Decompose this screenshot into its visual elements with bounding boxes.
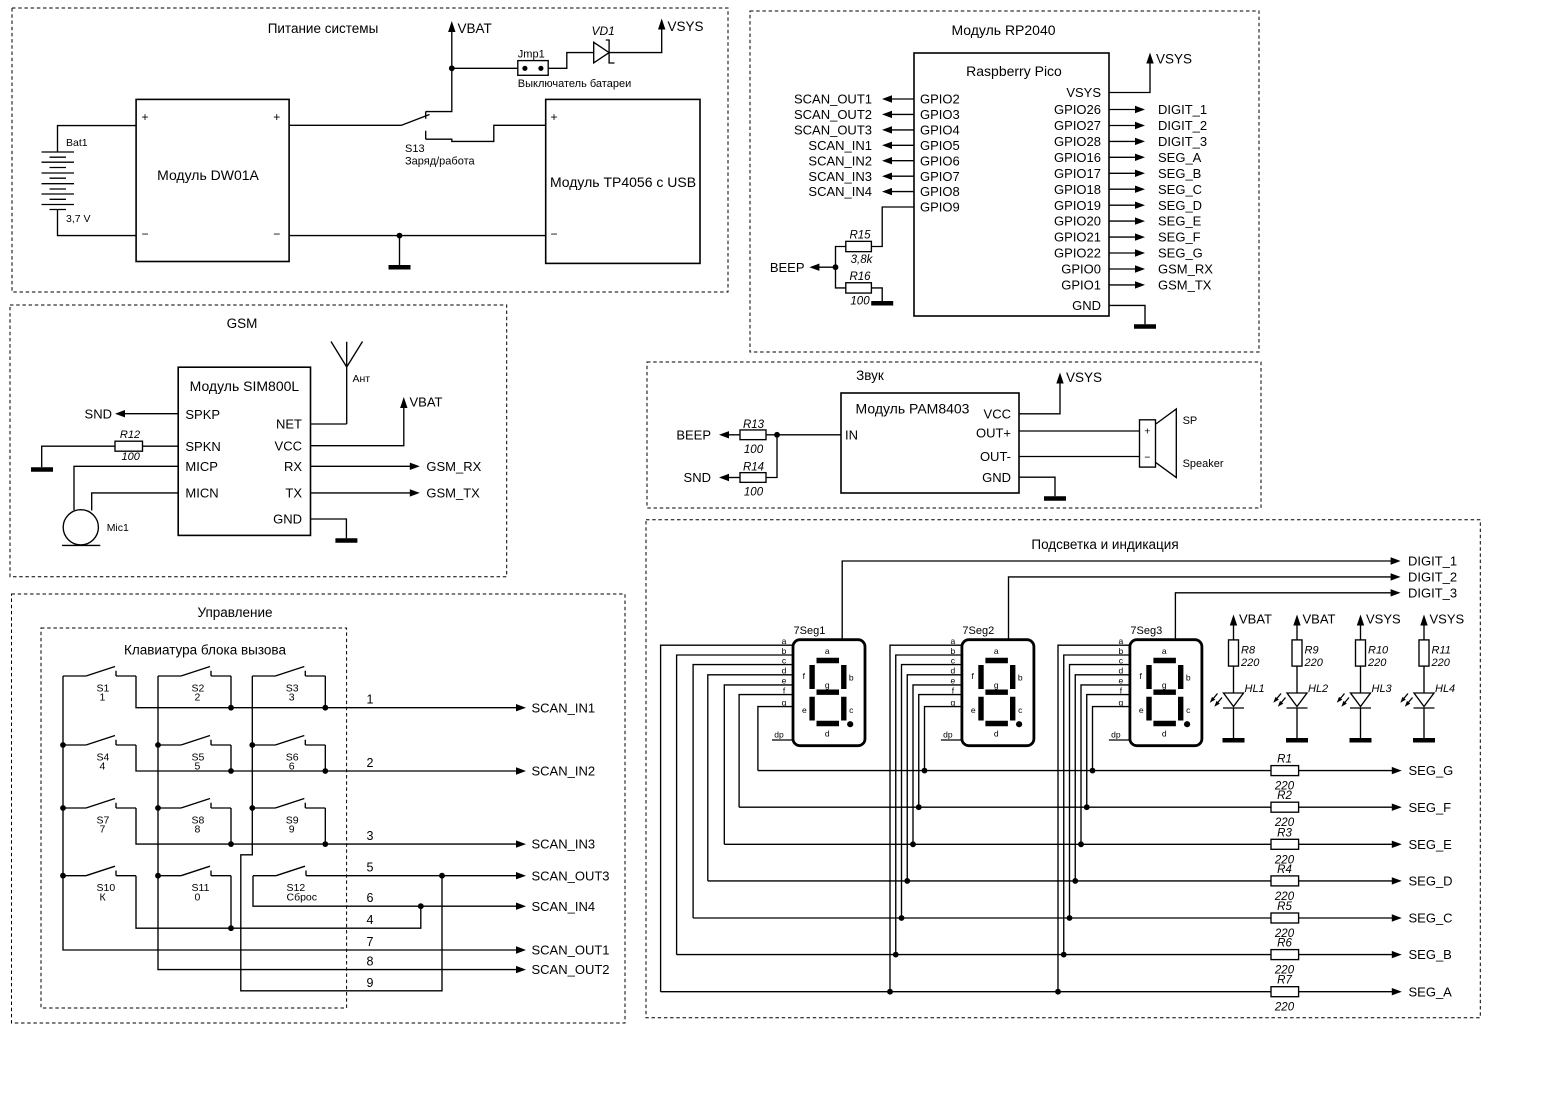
svg-text:SCAN_IN2: SCAN_IN2 xyxy=(808,153,872,168)
svg-text:220: 220 xyxy=(1367,657,1387,669)
net flag BEEP xyxy=(809,264,819,271)
svg-text:c: c xyxy=(1119,655,1124,665)
node bus junction xyxy=(60,742,66,748)
wire OUT+ to speaker xyxy=(1019,430,1140,432)
wire VCC to VBAT flag xyxy=(311,407,404,446)
module TP4056 xyxy=(546,99,700,263)
wire GPIO18 to SEG_C xyxy=(1109,188,1136,190)
svg-text:HL1: HL1 xyxy=(1245,683,1265,695)
svg-text:4: 4 xyxy=(367,913,374,927)
net flag SEG_D xyxy=(1135,202,1145,209)
svg-text:b: b xyxy=(782,646,787,656)
resistor R3 xyxy=(1271,839,1299,849)
svg-text:R14: R14 xyxy=(743,462,764,474)
svg-text:R5: R5 xyxy=(1277,901,1292,913)
control section frame xyxy=(12,594,626,1023)
svg-text:100: 100 xyxy=(744,444,764,456)
wire R16 to ground xyxy=(871,288,882,301)
wire GPIO9 to R15 xyxy=(872,207,914,247)
wire GND pico to ground xyxy=(1109,305,1145,324)
switch S1 key 1 xyxy=(63,667,136,677)
svg-text:a: a xyxy=(825,646,830,656)
wire SEG_G xyxy=(758,770,1393,772)
wire OUT- to speaker xyxy=(1019,456,1140,458)
net flag SCAN_OUT3 xyxy=(882,126,892,133)
net flag VSYS pico xyxy=(1146,53,1153,64)
svg-text:g: g xyxy=(994,680,999,690)
net flag SEG_A display xyxy=(1392,988,1402,995)
switch S13 xyxy=(402,112,430,140)
net flag GSM_TX xyxy=(1135,281,1145,288)
wire to ground xyxy=(399,236,401,266)
wire S5 drop row2 xyxy=(230,745,232,771)
7Seg3 segments xyxy=(1149,661,1181,724)
svg-text:SEG_F: SEG_F xyxy=(1409,800,1452,815)
node 7Seg2 g xyxy=(922,768,928,774)
7Seg2 segments xyxy=(981,661,1013,724)
svg-text:GPIO4: GPIO4 xyxy=(920,123,960,138)
wire S9 drop row3 xyxy=(324,808,326,844)
wire MICP to mic xyxy=(74,466,178,510)
resistor R15 xyxy=(846,241,872,251)
svg-text:Управление: Управление xyxy=(197,605,272,620)
net flag SEG_G display xyxy=(1392,767,1402,774)
wire bottom rail xyxy=(289,235,546,237)
svg-text:GPIO7: GPIO7 xyxy=(920,169,960,184)
wire VBAT to R9 xyxy=(1296,624,1298,640)
node row1 S2 xyxy=(228,705,234,711)
wire S8 drop row3 xyxy=(230,808,232,844)
wire column2 bus xyxy=(158,676,517,970)
net flag SCAN_IN1 xyxy=(882,142,892,149)
svg-text:GPIO17: GPIO17 xyxy=(1054,166,1101,181)
wire VSYS to R10 xyxy=(1360,624,1362,640)
wire 7Seg1 pin g xyxy=(758,707,793,771)
resistor R13 xyxy=(740,430,766,440)
net flag SND xyxy=(115,410,125,417)
node 7Seg3 a xyxy=(1055,989,1061,995)
svg-text:S13: S13 xyxy=(405,143,425,155)
svg-text:3,8k: 3,8k xyxy=(851,254,874,266)
ground HL4 xyxy=(1413,738,1435,743)
wire VSYS to R11 xyxy=(1423,624,1425,640)
svg-text:SEG_B: SEG_B xyxy=(1158,166,1201,181)
svg-text:VBAT: VBAT xyxy=(1239,612,1272,627)
wire S13 bottom to TP4056+ xyxy=(426,125,546,141)
svg-text:GPIO19: GPIO19 xyxy=(1054,198,1101,213)
svg-text:Ант: Ант xyxy=(353,373,371,385)
sound section frame xyxy=(647,362,1261,508)
svg-text:GND: GND xyxy=(1072,298,1101,313)
svg-text:220: 220 xyxy=(1240,657,1260,669)
microphone Mic1 xyxy=(63,510,98,545)
battery Bat1 xyxy=(42,152,75,210)
wire SEG_B xyxy=(677,954,1393,956)
ground power xyxy=(389,265,411,270)
ground HL3 xyxy=(1350,738,1372,743)
wire IN to node xyxy=(777,434,841,436)
svg-text:R4: R4 xyxy=(1277,864,1292,876)
switch S10 key К xyxy=(63,866,136,876)
svg-text:7Seg2: 7Seg2 xyxy=(962,625,994,637)
net flag SCAN_IN1 keypad xyxy=(516,704,526,711)
resistor R4 xyxy=(1271,876,1299,886)
ground pico xyxy=(1134,324,1156,329)
svg-text:a: a xyxy=(782,636,787,646)
ground R12 xyxy=(31,467,53,472)
wire 7Seg3 pin e xyxy=(1081,685,1130,844)
node row1 S3 xyxy=(322,705,328,711)
ground HL1 xyxy=(1223,738,1245,743)
svg-text:3: 3 xyxy=(367,829,374,843)
wire 7Seg1 pin f xyxy=(739,695,793,808)
wire GPIO1 to GSM_TX xyxy=(1109,284,1136,286)
resistor R14 xyxy=(740,473,766,483)
svg-text:GPIO28: GPIO28 xyxy=(1054,134,1101,149)
wire GPIO4 to SCAN_OUT3 xyxy=(891,129,914,131)
svg-text:SCAN_OUT3: SCAN_OUT3 xyxy=(794,123,872,138)
svg-text:GPIO21: GPIO21 xyxy=(1054,230,1101,245)
svg-text:GPIO26: GPIO26 xyxy=(1054,102,1101,117)
svg-text:DIGIT_3: DIGIT_3 xyxy=(1408,585,1457,600)
wire 7Seg2 pin d xyxy=(907,675,962,881)
svg-text:GPIO2: GPIO2 xyxy=(920,92,960,107)
display section frame xyxy=(646,520,1480,1018)
svg-text:Speaker: Speaker xyxy=(1183,458,1224,470)
net flag SEG_G xyxy=(1135,249,1145,256)
svg-text:4: 4 xyxy=(100,761,106,773)
svg-text:R13: R13 xyxy=(743,419,765,431)
svg-text:g: g xyxy=(951,697,956,707)
wire R8 to HL1 xyxy=(1233,666,1235,693)
wire GPIO28 to DIGIT_3 xyxy=(1109,140,1136,142)
node 7Seg3 d xyxy=(1072,878,1078,884)
svg-text:Сброс: Сброс xyxy=(287,891,318,903)
svg-text:d: d xyxy=(994,728,999,738)
net flag DIGIT_3 xyxy=(1391,589,1401,596)
svg-text:e: e xyxy=(1139,705,1144,715)
svg-text:dp: dp xyxy=(943,730,953,740)
svg-text:VBAT: VBAT xyxy=(1303,612,1336,627)
svg-text:9: 9 xyxy=(289,824,295,836)
wire row1 SCAN_IN1 xyxy=(136,676,517,708)
wire GND PAM to ground xyxy=(1019,477,1055,496)
svg-text:g: g xyxy=(825,680,830,690)
LED HL2 xyxy=(1287,693,1308,708)
net flag VSYS power xyxy=(658,19,665,30)
svg-text:IN: IN xyxy=(845,427,858,442)
net flag SCAN_OUT2 keypad xyxy=(516,966,526,973)
node 7Seg2 a xyxy=(887,989,893,995)
node SCAN_OUT3 col3 xyxy=(439,873,445,879)
wire GPIO17 to SEG_B xyxy=(1109,172,1136,174)
net flag SEG_F xyxy=(1135,233,1145,240)
node 7Seg3 e xyxy=(1078,841,1084,847)
svg-text:e: e xyxy=(971,705,976,715)
net flag GSM_TX xyxy=(410,489,420,496)
wire S3 drop row1 xyxy=(324,676,326,708)
svg-text:GPIO9: GPIO9 xyxy=(920,200,960,215)
wire HL4 to ground xyxy=(1423,708,1425,738)
svg-text:−: − xyxy=(141,227,148,241)
node bus junction xyxy=(155,805,161,811)
svg-text:GPIO16: GPIO16 xyxy=(1054,150,1101,165)
node bus junction xyxy=(249,805,255,811)
ground HL2 xyxy=(1286,738,1308,743)
wire GPIO8 to SCAN_IN4 xyxy=(891,191,914,193)
node row3 S8 xyxy=(228,841,234,847)
svg-text:−: − xyxy=(1144,452,1150,464)
svg-text:GPIO22: GPIO22 xyxy=(1054,246,1101,261)
svg-text:GSM_RX: GSM_RX xyxy=(1158,262,1213,277)
net flag SCAN_OUT2 xyxy=(882,111,892,118)
svg-text:c: c xyxy=(951,655,956,665)
resistor R10 xyxy=(1356,640,1366,666)
net flag SEG_E xyxy=(1135,217,1145,224)
svg-text:SP: SP xyxy=(1183,415,1198,427)
wire battery- to DW01A xyxy=(58,210,137,236)
wire GPIO20 to SEG_E xyxy=(1109,220,1136,222)
net flag DIGIT_1 xyxy=(1135,106,1145,113)
node 7Seg2 b xyxy=(893,952,899,958)
svg-text:−: − xyxy=(550,227,557,241)
svg-text:RX: RX xyxy=(284,459,302,474)
svg-text:SCAN_IN2: SCAN_IN2 xyxy=(532,764,596,779)
node GND junction xyxy=(397,233,403,239)
svg-text:Выключатель батареи: Выключатель батареи xyxy=(518,78,631,90)
svg-text:SEG_G: SEG_G xyxy=(1158,246,1203,261)
node bus junction xyxy=(249,742,255,748)
svg-text:9: 9 xyxy=(367,976,374,990)
net flag GSM_RX xyxy=(410,463,420,470)
svg-text:DIGIT_2: DIGIT_2 xyxy=(1158,118,1207,133)
svg-text:+: + xyxy=(273,110,280,124)
wire 7Seg1 pin e xyxy=(724,685,793,844)
svg-text:Заряд/работа: Заряд/работа xyxy=(405,156,476,168)
wire BEEP node to arrow xyxy=(818,266,836,268)
net flag VSYS HL3 xyxy=(1357,615,1364,626)
svg-text:b: b xyxy=(1119,646,1124,656)
svg-text:SCAN_IN1: SCAN_IN1 xyxy=(532,700,596,715)
node row2 S6 xyxy=(322,768,328,774)
wire S6 drop row2 xyxy=(324,745,326,771)
net flag VBAT GSM xyxy=(400,397,407,408)
node 7Seg3 c xyxy=(1067,915,1073,921)
svg-text:a: a xyxy=(994,646,999,656)
wire GPIO0 to GSM_RX xyxy=(1109,268,1136,270)
svg-text:3,7 V: 3,7 V xyxy=(66,213,91,225)
wire 7Seg2 pin a xyxy=(890,645,962,992)
svg-text:OUT+: OUT+ xyxy=(976,425,1011,440)
wire R14 to SND xyxy=(728,477,741,479)
wire GPIO27 to DIGIT_2 xyxy=(1109,125,1136,127)
wire column1 bus xyxy=(63,676,517,950)
wire GND to ground GSM xyxy=(311,519,347,538)
net flag SEG_C xyxy=(1135,186,1145,193)
wire S10 to row4 xyxy=(136,876,421,929)
svg-text:Клавиатура блока вызова: Клавиатура блока вызова xyxy=(124,643,286,658)
svg-text:Звук: Звук xyxy=(856,368,884,383)
7Seg1 segments xyxy=(812,661,844,724)
wire Jmp1 to VD1 xyxy=(548,53,594,69)
svg-text:SCAN_IN4: SCAN_IN4 xyxy=(532,899,596,914)
svg-text:Модуль DW01A: Модуль DW01A xyxy=(157,167,259,183)
svg-text:Mic1: Mic1 xyxy=(107,522,129,534)
LED HL2 light arrows xyxy=(1276,694,1286,704)
svg-text:Bat1: Bat1 xyxy=(66,137,88,149)
svg-text:7: 7 xyxy=(100,824,106,836)
node 7Seg2 c xyxy=(899,915,905,921)
wire 7Seg2 pin b xyxy=(896,655,962,955)
svg-text:SCAN_OUT2: SCAN_OUT2 xyxy=(532,962,610,977)
svg-text:HL3: HL3 xyxy=(1372,683,1393,695)
svg-text:BEEP: BEEP xyxy=(676,427,711,442)
svg-text:VCC: VCC xyxy=(984,406,1011,421)
net flag DIGIT_2 xyxy=(1135,122,1145,129)
node row2 S5 xyxy=(228,768,234,774)
wire VBAT to R8 xyxy=(1233,624,1235,640)
wire TX to GSM_TX xyxy=(311,492,411,494)
svg-text:HL2: HL2 xyxy=(1308,683,1328,695)
resistor R12 xyxy=(115,441,143,451)
svg-text:7Seg1: 7Seg1 xyxy=(794,625,826,637)
svg-text:100: 100 xyxy=(850,295,870,307)
svg-text:SCAN_IN3: SCAN_IN3 xyxy=(808,169,872,184)
net flag SEG_A xyxy=(1135,154,1145,161)
node row3 S9 xyxy=(322,841,328,847)
svg-text:R12: R12 xyxy=(120,429,140,441)
svg-text:b: b xyxy=(951,646,956,656)
svg-text:NET: NET xyxy=(276,417,302,432)
wire 7Seg1 pin b xyxy=(677,655,793,955)
net flag SEG_F display xyxy=(1392,804,1402,811)
svg-text:R9: R9 xyxy=(1305,645,1319,657)
svg-text:+: + xyxy=(141,110,148,124)
svg-text:VSYS: VSYS xyxy=(1066,85,1101,100)
node SCAN_IN4 row4 xyxy=(418,903,424,909)
resistor R7 xyxy=(1271,987,1299,997)
svg-text:e: e xyxy=(802,705,807,715)
net flag VBAT HL2 xyxy=(1293,615,1300,626)
svg-text:TX: TX xyxy=(285,486,302,501)
wire VBAT node to S13 top xyxy=(426,68,452,111)
svg-text:Подсветка и индикация: Подсветка и индикация xyxy=(1031,537,1178,552)
wire BEEP node to R16 xyxy=(836,267,846,288)
svg-text:VSYS: VSYS xyxy=(668,19,704,34)
svg-text:VBAT: VBAT xyxy=(410,395,443,410)
wire GPIO5 to SCAN_IN1 xyxy=(891,144,914,146)
net flag SEG_C display xyxy=(1392,914,1402,921)
svg-text:R8: R8 xyxy=(1241,645,1256,657)
switch S12 reset xyxy=(253,866,326,876)
svg-text:GPIO5: GPIO5 xyxy=(920,138,960,153)
wire HL2 to ground xyxy=(1296,708,1298,738)
svg-text:GPIO6: GPIO6 xyxy=(920,153,960,168)
wire SEG_E xyxy=(724,843,1393,845)
net flag SEG_B xyxy=(1135,170,1145,177)
svg-text:e: e xyxy=(1119,676,1124,686)
wire GPIO16 to SEG_A xyxy=(1109,156,1136,158)
svg-text:GPIO27: GPIO27 xyxy=(1054,118,1101,133)
wire 7Seg1 pin c xyxy=(693,665,793,918)
wire 7Seg3 pin a xyxy=(1058,645,1130,992)
svg-text:e: e xyxy=(782,676,787,686)
wire node to R13 xyxy=(766,434,777,436)
resistor R11 xyxy=(1419,640,1429,666)
svg-text:8: 8 xyxy=(367,955,374,969)
svg-text:Питание системы: Питание системы xyxy=(268,21,379,36)
net flag DIGIT_3 xyxy=(1135,138,1145,145)
net flag SCAN_IN4 keypad xyxy=(516,903,526,910)
node 7Seg2 d xyxy=(904,878,910,884)
switch S9 key 9 xyxy=(252,799,325,809)
wire MICN to mic xyxy=(92,493,179,511)
svg-text:GND: GND xyxy=(273,512,302,527)
svg-text:SCAN_IN1: SCAN_IN1 xyxy=(808,138,872,153)
svg-text:100: 100 xyxy=(122,451,141,463)
ground R16 xyxy=(871,301,893,306)
wire 7Seg3 pin b xyxy=(1064,655,1130,955)
svg-text:VSYS: VSYS xyxy=(1366,612,1401,627)
net flag SEG_E display xyxy=(1392,841,1402,848)
resistor R16 xyxy=(846,283,872,293)
RP2040 section frame xyxy=(750,11,1259,352)
wire to VBAT flag xyxy=(451,31,453,68)
svg-text:b: b xyxy=(1018,673,1023,683)
node IN junction xyxy=(774,432,780,438)
svg-text:SEG_D: SEG_D xyxy=(1409,874,1453,889)
wire R12 to ground xyxy=(42,446,115,467)
net flag SCAN_IN2 keypad xyxy=(516,767,526,774)
wire GPIO7 to SCAN_IN3 xyxy=(891,175,914,177)
wire GPIO21 to SEG_F xyxy=(1109,236,1136,238)
svg-text:8: 8 xyxy=(195,824,201,836)
svg-text:b: b xyxy=(1186,673,1191,683)
LED HL1 xyxy=(1223,693,1244,708)
svg-text:SCAN_OUT2: SCAN_OUT2 xyxy=(794,107,872,122)
resistor R2 xyxy=(1271,802,1299,812)
antenna Ant xyxy=(331,342,363,425)
net flag SCAN_IN4 xyxy=(882,188,892,195)
node VBAT junction xyxy=(449,65,455,71)
svg-text:1: 1 xyxy=(100,692,106,704)
switch S7 key 7 xyxy=(63,799,136,809)
svg-text:GPIO1: GPIO1 xyxy=(1061,278,1101,293)
LED HL4 xyxy=(1414,693,1435,708)
wire GPIO26 to DIGIT_1 xyxy=(1109,109,1136,111)
wire row2 SCAN_IN2 xyxy=(136,745,517,771)
net flag VSYS HL4 xyxy=(1420,615,1427,626)
wire 7Seg3 pin g xyxy=(1093,707,1130,771)
switch S3 key 3 xyxy=(252,667,325,677)
switch S4 key 4 xyxy=(63,736,136,746)
wire column3 bus xyxy=(241,676,442,991)
svg-text:220: 220 xyxy=(1304,657,1324,669)
svg-text:VCC: VCC xyxy=(275,438,302,453)
svg-text:SEG_C: SEG_C xyxy=(1158,182,1202,197)
node bus junction xyxy=(155,742,161,748)
net flag SEG_B display xyxy=(1392,951,1402,958)
svg-text:HL4: HL4 xyxy=(1435,683,1455,695)
node 7Seg3 g xyxy=(1090,768,1096,774)
svg-text:GPIO0: GPIO0 xyxy=(1061,262,1101,277)
switch S2 key 2 xyxy=(158,667,231,677)
resistor R1 xyxy=(1271,766,1299,776)
svg-text:VD1: VD1 xyxy=(592,24,615,38)
wire R13 to BEEP xyxy=(728,434,741,436)
svg-text:VSYS: VSYS xyxy=(1430,612,1465,627)
svg-text:GSM: GSM xyxy=(227,316,258,331)
